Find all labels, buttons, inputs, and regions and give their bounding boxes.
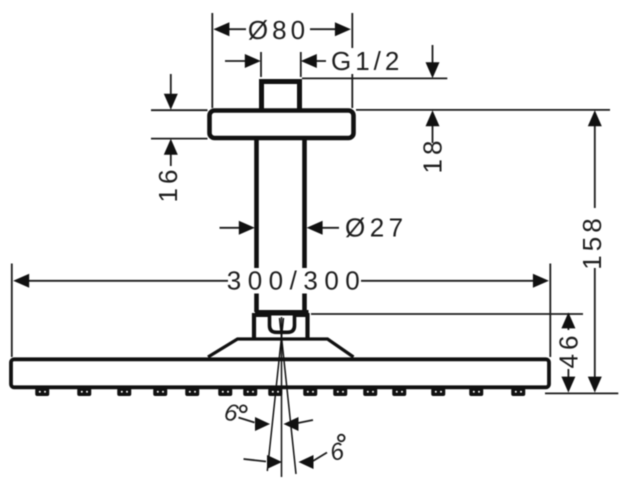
svg-text:G1/2: G1/2 bbox=[331, 46, 403, 76]
bracket around ball joint bbox=[254, 313, 308, 339]
dimension 46 bbox=[567, 326, 569, 379]
spray line center bbox=[281, 317, 283, 477]
spray line left bbox=[267, 318, 283, 471]
svg-text:Ø80: Ø80 bbox=[248, 15, 309, 45]
svg-text:Ø27: Ø27 bbox=[345, 213, 408, 243]
angle 6 lower label bbox=[327, 435, 348, 467]
ceiling plate bbox=[210, 111, 354, 139]
extension line ball top right bbox=[311, 313, 583, 315]
dimension Ø27 bbox=[220, 227, 340, 229]
extension line fitting top right bbox=[302, 77, 447, 79]
extension line plate top right bbox=[356, 109, 610, 111]
svg-text:6: 6 bbox=[222, 399, 241, 428]
pipe bbox=[257, 138, 305, 312]
nozzle row bbox=[35, 388, 525, 396]
svg-text:16: 16 bbox=[153, 166, 183, 203]
cone trapezoid bbox=[208, 339, 354, 357]
nozzle dots bbox=[39, 391, 522, 393]
dimension 18 bbox=[432, 45, 434, 143]
svg-text:6: 6 bbox=[327, 437, 348, 467]
svg-text:158: 158 bbox=[577, 214, 607, 269]
dimension 300/300 bbox=[12, 264, 551, 358]
dimension G1/2 bbox=[225, 52, 326, 77]
svg-text:46: 46 bbox=[554, 332, 584, 369]
svg-text:18: 18 bbox=[418, 137, 448, 174]
fitting G1/2 thread stub bbox=[262, 82, 300, 113]
angle 6 lower arrows bbox=[244, 459, 267, 462]
ball joint bbox=[270, 316, 295, 333]
spray line right bbox=[280, 318, 297, 474]
dimension 16 bbox=[151, 74, 208, 166]
shower head body bbox=[11, 359, 549, 387]
nozzle plane line bbox=[545, 392, 618, 394]
dimension 158 bbox=[594, 124, 596, 379]
angle 6 upper arrows bbox=[255, 417, 299, 431]
svg-text:300/300: 300/300 bbox=[227, 265, 366, 295]
nut bar at pipe end bbox=[255, 310, 309, 317]
angle 6 upper label bbox=[222, 399, 255, 428]
dimension Ø80 bbox=[212, 13, 352, 108]
